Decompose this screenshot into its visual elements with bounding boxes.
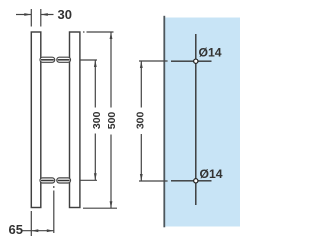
svg-text:300: 300 — [135, 111, 147, 129]
svg-text:Ø14: Ø14 — [199, 46, 222, 60]
svg-text:300: 300 — [91, 111, 103, 129]
svg-text:Ø14: Ø14 — [200, 167, 223, 181]
svg-text:30: 30 — [58, 7, 72, 22]
svg-text:500: 500 — [106, 112, 118, 130]
svg-text:65: 65 — [9, 222, 23, 237]
